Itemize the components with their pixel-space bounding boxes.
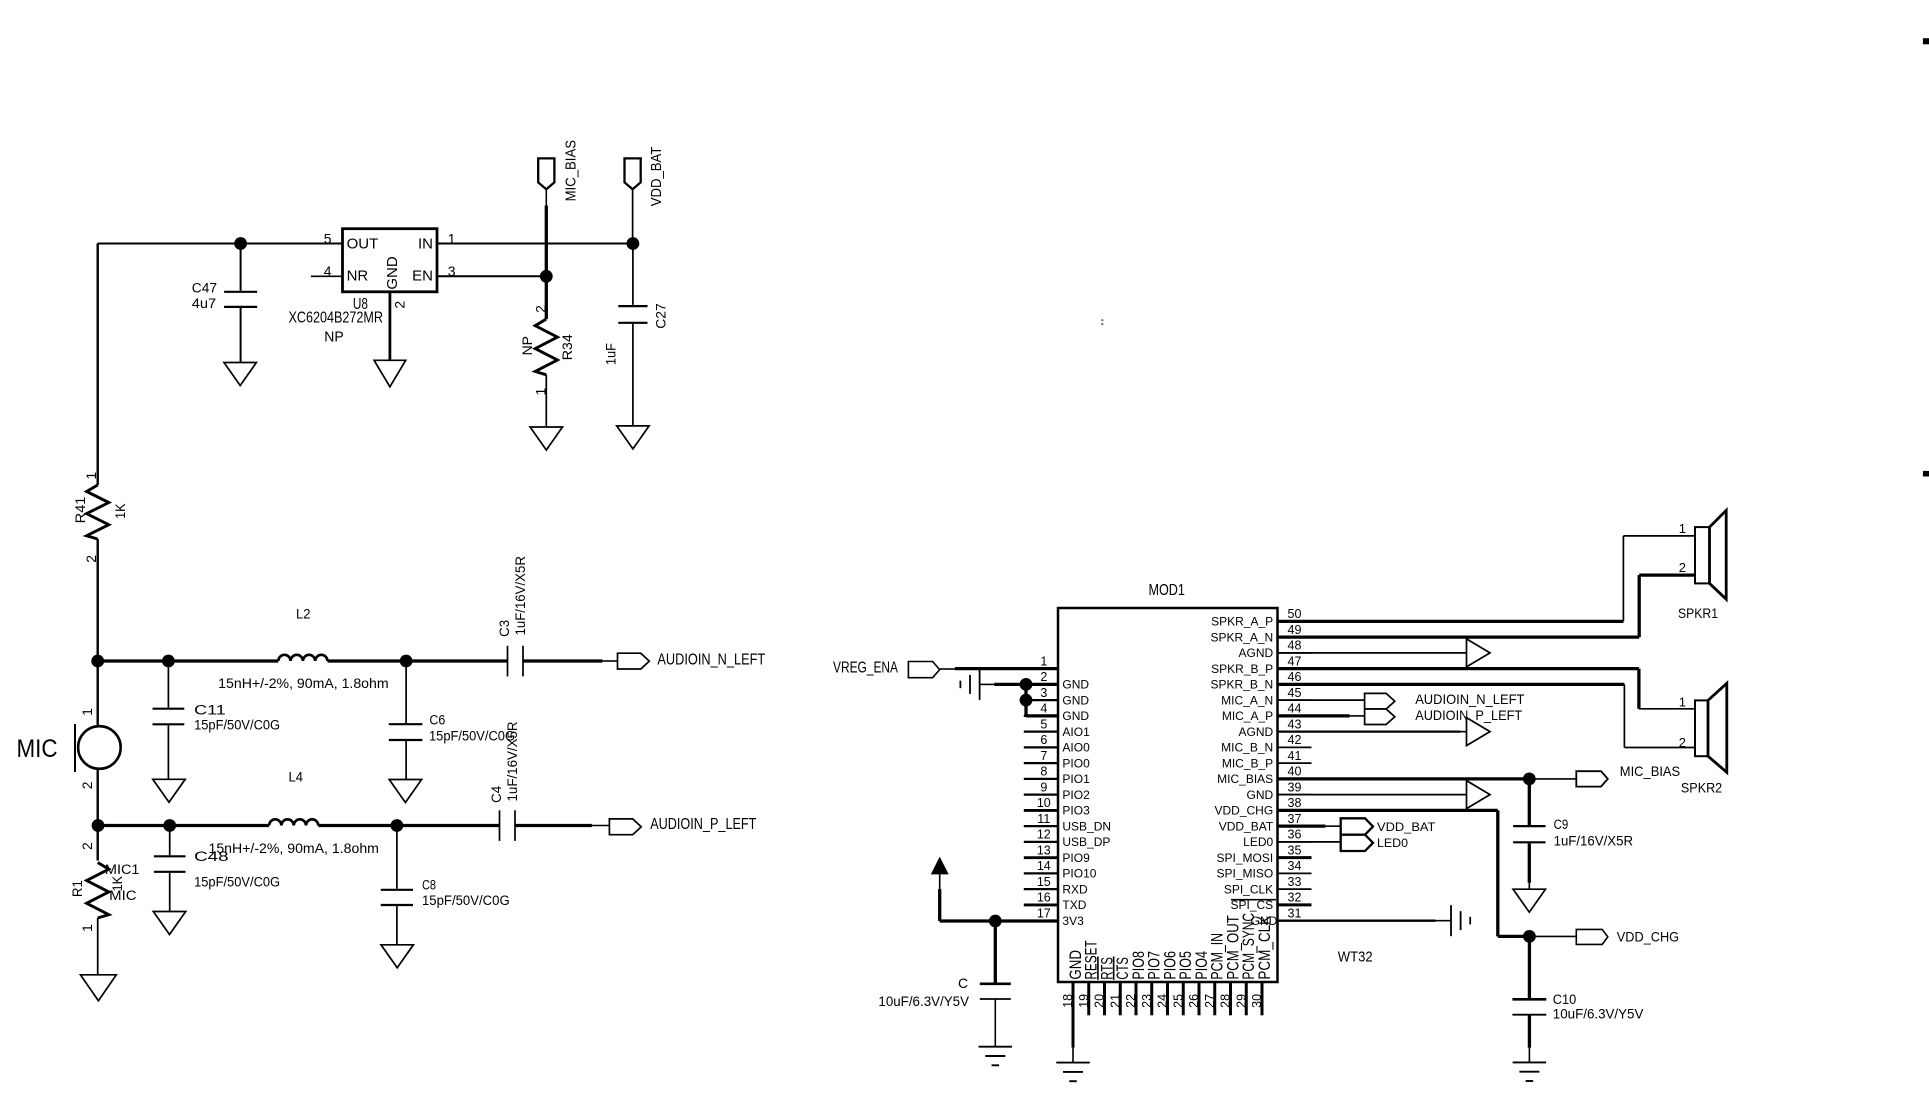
svg-text:XC6204B272MR: XC6204B272MR	[289, 309, 384, 326]
svg-text:SPI_MISO: SPI_MISO	[1217, 867, 1274, 881]
svg-text:21: 21	[1108, 994, 1122, 1008]
microphone MIC1 symbol	[96, 661, 98, 726]
svg-text:16: 16	[1037, 891, 1051, 905]
svg-text:MIC: MIC	[17, 735, 58, 763]
pin 36 stub (MOD1 right)	[1278, 841, 1312, 843]
capacitor C10	[1528, 936, 1531, 998]
ground symbol (rotated) at pin 2	[980, 683, 995, 685]
capacitor C6	[405, 661, 407, 723]
wire: VREG_ENA lead	[940, 668, 955, 670]
pin 35 stub (MOD1 right)	[1278, 856, 1312, 859]
pin 25 stub (MOD1 bottom)	[1182, 982, 1185, 1015]
svg-text:6: 6	[1040, 733, 1047, 747]
svg-text:1: 1	[1040, 654, 1047, 668]
pin 22 stub (MOD1 bottom)	[1135, 982, 1138, 1015]
svg-text:1uF: 1uF	[604, 343, 619, 365]
pin 49 stub (MOD1 right)	[1278, 636, 1312, 638]
resistor R34	[545, 276, 548, 319]
pin 46 stub (MOD1 right)	[1278, 683, 1312, 685]
wire: SPKR_A_P net (pin 50)	[1278, 620, 1624, 623]
svg-text:2: 2	[532, 305, 548, 313]
svg-text:31: 31	[1288, 906, 1302, 920]
wire: LED0 net (pin 36)	[1278, 841, 1341, 843]
svg-text:28: 28	[1219, 994, 1233, 1008]
svg-text:LED0: LED0	[1377, 838, 1408, 850]
pin 5 stub (MOD1 left)	[1024, 731, 1058, 733]
svg-text:PIO2: PIO2	[1062, 788, 1090, 802]
wire: MIC_BIAS net (pin 40)	[1278, 777, 1530, 780]
svg-text:14: 14	[1037, 859, 1051, 873]
svg-text:PCM_CLK: PCM_CLK	[1255, 915, 1274, 979]
node: C junction on 3V3	[989, 915, 1002, 928]
svg-text:42: 42	[1288, 733, 1302, 747]
svg-text:PIO1: PIO1	[1062, 772, 1090, 786]
pin 39 stub (MOD1 right)	[1278, 794, 1312, 796]
svg-text:PIO0: PIO0	[1062, 756, 1090, 770]
pin 11 stub (MOD1 left)	[1024, 825, 1058, 827]
pin 12 stub (MOD1 left)	[1024, 841, 1058, 843]
svg-text:GND: GND	[1062, 693, 1089, 707]
svg-text:R34: R34	[559, 334, 575, 360]
capacitor C8	[396, 826, 398, 889]
svg-text:SPKR_A_N: SPKR_A_N	[1210, 630, 1273, 644]
svg-text:2: 2	[391, 301, 407, 309]
svg-text:EN: EN	[412, 268, 433, 285]
svg-text:40: 40	[1288, 765, 1302, 779]
svg-text:LED0: LED0	[1243, 835, 1273, 849]
svg-text:R41: R41	[72, 496, 88, 523]
svg-text:2: 2	[79, 781, 95, 789]
svg-text:PIO3: PIO3	[1062, 804, 1090, 818]
pin 37 stub (MOD1 right)	[1278, 825, 1312, 827]
svg-text:AUDIOIN_N_LEFT: AUDIOIN_N_LEFT	[1415, 691, 1525, 707]
svg-text:MIC_B_P: MIC_B_P	[1222, 756, 1273, 770]
svg-text:29: 29	[1234, 994, 1248, 1008]
pin 38 stub (MOD1 right)	[1278, 809, 1312, 811]
wire: IN net (U8.IN to VDD_BAT node)	[437, 243, 633, 245]
svg-text:13: 13	[1037, 843, 1051, 857]
svg-text:1: 1	[79, 708, 95, 716]
wire: MIC_A_N net (pin 45)	[1278, 699, 1365, 701]
node: VDD_BAT/IN junction	[627, 237, 640, 250]
net flag AUDIOIN_N_LEFT (right)	[1365, 693, 1395, 709]
ground below C27	[617, 426, 649, 449]
svg-text:30: 30	[1250, 994, 1264, 1008]
wire: AGND arrow (pin 48)	[1278, 652, 1467, 654]
svg-text:41: 41	[1288, 749, 1302, 763]
pin 32 stub (MOD1 right)	[1278, 903, 1312, 906]
svg-text:32: 32	[1288, 891, 1302, 905]
svg-text:C47: C47	[192, 280, 217, 295]
svg-text:MIC_A_P: MIC_A_P	[1222, 709, 1273, 723]
stray mark top right	[1923, 38, 1929, 44]
svg-text:C8: C8	[422, 877, 436, 892]
capacitor C4 (series)	[499, 810, 501, 841]
pin 20 stub (MOD1 bottom)	[1103, 982, 1106, 1015]
ground below U8	[374, 360, 406, 387]
svg-text:46: 46	[1288, 670, 1302, 684]
IEC ground below C10	[1513, 1061, 1547, 1063]
pin 2 stub (MOD1 left)	[1024, 683, 1058, 685]
wire: L2 to C3	[328, 659, 508, 662]
svg-text:R1: R1	[69, 880, 85, 897]
node: MIC_BIAS junction	[1523, 773, 1536, 786]
svg-text:C10: C10	[1553, 992, 1577, 1007]
wire: GND net (pin 31)	[1278, 919, 1436, 921]
pin 24 stub (MOD1 bottom)	[1166, 982, 1169, 1015]
svg-text:AUDIOIN_N_LEFT: AUDIOIN_N_LEFT	[657, 651, 765, 668]
wire: L4 to C4	[318, 824, 499, 827]
resistor R41	[87, 485, 109, 539]
svg-text:15pF/50V/C0G: 15pF/50V/C0G	[422, 893, 510, 908]
wire: R41 to upper audio node	[96, 539, 98, 661]
net flag LED0	[1341, 835, 1373, 851]
svg-text:AGND: AGND	[1239, 725, 1274, 739]
pin 44 stub (MOD1 right)	[1278, 715, 1312, 717]
pin 8 stub (MOD1 left)	[1024, 778, 1058, 780]
svg-text:26: 26	[1187, 994, 1201, 1008]
wire: SPKR_B_N net (pin 46)	[1278, 683, 1625, 686]
net flag MIC_BIAS (right)	[1576, 771, 1608, 786]
ground below R1	[81, 975, 117, 1001]
net flag AUDIOIN_P_LEFT (right)	[1365, 709, 1395, 725]
ground below C48	[153, 912, 185, 935]
svg-text:L4: L4	[289, 769, 304, 785]
wire: GND net pin4	[1026, 714, 1058, 717]
pin 42 stub (MOD1 right)	[1278, 746, 1312, 748]
svg-text:15pF/50V/C0G: 15pF/50V/C0G	[194, 874, 280, 889]
op-amp U8 regulator XC6204B272MR box	[343, 229, 438, 292]
pin 23 stub (MOD1 bottom)	[1150, 982, 1153, 1015]
svg-text:SPKR2: SPKR2	[1681, 780, 1722, 796]
wire: EN net (U8.EN to MIC_BIAS node)	[437, 275, 546, 277]
svg-text:GND: GND	[384, 256, 401, 290]
svg-text:MIC_BIAS: MIC_BIAS	[1620, 763, 1680, 779]
svg-text:SPKR_B_N: SPKR_B_N	[1210, 678, 1273, 692]
overline for CTS (pin 21)	[1113, 957, 1115, 980]
svg-text:34: 34	[1288, 859, 1302, 873]
svg-text:MIC_A_N: MIC_A_N	[1221, 693, 1273, 707]
node: VDD_CHG junction	[1523, 930, 1536, 943]
node: C8 junction	[391, 819, 404, 832]
capacitor C (10uF/6.3V/Y5V)	[994, 921, 997, 983]
svg-text:1: 1	[79, 924, 95, 932]
svg-text:3V3: 3V3	[1062, 914, 1084, 928]
pin 9 stub (MOD1 left)	[1024, 794, 1058, 796]
svg-text:45: 45	[1288, 686, 1302, 700]
wire: MIC_A_P net (pin 44)	[1278, 714, 1350, 717]
svg-text:37: 37	[1288, 812, 1302, 826]
svg-text:1: 1	[1679, 521, 1686, 536]
node: C11 junction	[162, 655, 175, 668]
capacitor C47	[240, 244, 242, 291]
svg-text:17: 17	[1037, 906, 1051, 920]
svg-text:1: 1	[532, 388, 548, 396]
wire: SPKR_A_N net (pin 49)	[1278, 636, 1640, 639]
pin 50 stub (MOD1 right)	[1278, 620, 1312, 622]
wire: lower audio line (AUDIOIN_P_LEFT net)	[98, 824, 269, 827]
svg-text:VDD_CHG: VDD_CHG	[1215, 804, 1274, 818]
svg-text:TXD: TXD	[1062, 898, 1086, 912]
pin 40 stub (MOD1 right)	[1278, 778, 1312, 780]
inductor L2	[278, 655, 327, 661]
wire: C4 lead to flag	[592, 825, 610, 827]
svg-text:50: 50	[1288, 607, 1302, 621]
pin 15 stub (MOD1 left)	[1024, 888, 1058, 890]
wire: left rail vertical down to R41	[96, 244, 98, 486]
supply flag MIC_BIAS (top)	[538, 158, 554, 189]
pin 48 stub (MOD1 right)	[1278, 652, 1312, 654]
node: C6 junction	[400, 655, 413, 668]
wire: 3V3 horizontal to pin 17	[940, 919, 1058, 922]
svg-text:GND: GND	[1062, 678, 1089, 692]
pin 30 stub (MOD1 bottom)	[1261, 982, 1264, 1015]
pin 14 stub (MOD1 left)	[1024, 872, 1058, 874]
svg-text:C: C	[958, 975, 968, 991]
svg-text:23: 23	[1140, 994, 1154, 1008]
wire: SPKR_B_P net (pin 47)	[1278, 667, 1639, 670]
svg-text:33: 33	[1288, 875, 1302, 889]
node: pin2 junction	[1020, 678, 1033, 691]
speaker SPKR2	[1695, 700, 1708, 756]
pin 47 stub (MOD1 right)	[1278, 668, 1312, 670]
svg-text:48: 48	[1288, 639, 1302, 653]
pin 21 stub (MOD1 bottom)	[1119, 982, 1122, 1015]
svg-text:15nH+/-2%, 90mA, 1.8ohm: 15nH+/-2%, 90mA, 1.8ohm	[209, 840, 379, 856]
wire: upper audio line (AUDIOIN_N_LEFT net)	[98, 659, 279, 662]
ground symbol (rotated) at pin 31	[1450, 905, 1452, 936]
wire: MIC_BIAS vertical net	[545, 206, 548, 277]
svg-text:19: 19	[1077, 994, 1091, 1008]
svg-text:11: 11	[1037, 812, 1050, 826]
svg-text:C4: C4	[489, 785, 504, 802]
wire: 3V3 vertical	[938, 889, 941, 921]
wire: GND vertical link pins 2-4	[1024, 684, 1027, 716]
wire: VDD_CHG net (pin 38)	[1278, 809, 1498, 812]
svg-text:10: 10	[1037, 796, 1051, 810]
svg-text:5: 5	[324, 231, 332, 247]
svg-text:38: 38	[1288, 796, 1302, 810]
pin 18 stub (MOD1 bottom)	[1072, 982, 1075, 1015]
capacitor C3 (series)	[507, 646, 509, 677]
svg-text:35: 35	[1288, 843, 1302, 857]
svg-text:L2: L2	[296, 605, 311, 621]
svg-text:43: 43	[1288, 717, 1302, 731]
junction node at C47 top	[234, 237, 247, 250]
pin 41 stub (MOD1 right)	[1278, 762, 1312, 764]
net flag AUDIOIN_N_LEFT	[618, 653, 650, 669]
svg-text:WT32: WT32	[1338, 948, 1373, 965]
wire: MIC_BIAS flag lead	[545, 189, 547, 205]
svg-text:GND: GND	[1062, 709, 1089, 723]
node: MIC_BIAS/EN junction	[540, 270, 553, 283]
node: upper line left junction	[91, 655, 104, 668]
pin 34 stub (MOD1 right)	[1278, 872, 1312, 874]
pin 6 stub (MOD1 left)	[1024, 746, 1058, 748]
svg-text:VDD_BAT: VDD_BAT	[1219, 819, 1274, 833]
wire: GND arrow (pin 39)	[1278, 794, 1467, 796]
svg-text:AUDIOIN_P_LEFT: AUDIOIN_P_LEFT	[650, 816, 756, 833]
pin 17 stub (MOD1 left)	[1024, 920, 1058, 922]
svg-text:49: 49	[1288, 623, 1302, 637]
svg-text:NP: NP	[324, 328, 343, 345]
wire: C3 lead to flag	[602, 660, 617, 662]
node: lower line left junction	[92, 819, 105, 832]
net flag VREG_ENA	[908, 662, 939, 678]
node: pin3 junction	[1020, 694, 1033, 707]
svg-text:1: 1	[1679, 695, 1686, 710]
svg-text:4: 4	[1040, 702, 1047, 716]
svg-text:C27: C27	[654, 303, 669, 328]
stray mark right edge	[1923, 471, 1929, 477]
pin 16 stub (MOD1 left)	[1024, 903, 1058, 906]
ground below C11	[153, 779, 185, 802]
svg-text:15nH+/-2%, 90mA, 1.8ohm: 15nH+/-2%, 90mA, 1.8ohm	[218, 675, 388, 691]
svg-text:MIC_BIAS: MIC_BIAS	[562, 140, 579, 201]
supply flag VDD_BAT (top)	[625, 158, 641, 189]
svg-text:15pF/50V/C0G: 15pF/50V/C0G	[429, 728, 515, 743]
capacitor C27	[632, 244, 634, 305]
svg-text:C3: C3	[497, 620, 512, 637]
wire: pin 18 GND down	[1072, 982, 1075, 1048]
svg-text:RXD: RXD	[1062, 882, 1088, 896]
pin 7 stub (MOD1 left)	[1024, 762, 1058, 764]
svg-text:OUT: OUT	[347, 235, 379, 252]
svg-text:10uF/6.3V/Y5V: 10uF/6.3V/Y5V	[878, 994, 969, 1009]
svg-text:MOD1: MOD1	[1149, 582, 1185, 599]
svg-text:SPI_MOSI: SPI_MOSI	[1217, 851, 1274, 865]
svg-text:5: 5	[1040, 717, 1047, 731]
net flag AUDIOIN_P_LEFT	[609, 819, 641, 835]
wire: U8 NR stub	[311, 275, 343, 277]
svg-text:2: 2	[1040, 670, 1047, 684]
svg-text:20: 20	[1093, 994, 1107, 1008]
resistor R1	[96, 826, 98, 861]
ground below C47	[224, 363, 256, 386]
svg-text:VDD_BAT: VDD_BAT	[648, 147, 665, 207]
svg-text:36: 36	[1288, 828, 1302, 842]
svg-text:25: 25	[1171, 994, 1185, 1008]
svg-text:12: 12	[1037, 828, 1051, 842]
wire: AGND arrow (pin 43)	[1278, 731, 1461, 733]
svg-text:2: 2	[1679, 735, 1686, 750]
svg-text:MIC_B_N: MIC_B_N	[1221, 741, 1273, 755]
svg-text:NR: NR	[347, 268, 369, 285]
svg-text:22: 22	[1124, 994, 1138, 1008]
svg-text:2: 2	[1679, 560, 1686, 575]
pin 19 stub (MOD1 bottom)	[1087, 982, 1090, 1015]
svg-text:8: 8	[1040, 765, 1047, 779]
net flag VDD_CHG	[1576, 929, 1608, 944]
wire: VDD_BAT vertical	[632, 189, 634, 243]
pin 3 stub (MOD1 left)	[1024, 699, 1058, 701]
svg-text:C11: C11	[194, 702, 226, 717]
svg-text:15: 15	[1037, 875, 1051, 889]
wire: OUT net horizontal (U8.OUT to left rail)	[98, 243, 343, 245]
IEC ground below pin 18	[1056, 1062, 1090, 1064]
ground below C9	[1513, 889, 1545, 912]
svg-text:9: 9	[1040, 780, 1047, 794]
pin 4 stub (MOD1 left)	[1024, 715, 1058, 717]
svg-text:SPKR_A_P: SPKR_A_P	[1211, 615, 1273, 629]
svg-text:3: 3	[1040, 686, 1047, 700]
pin 13 stub (MOD1 left)	[1024, 856, 1058, 859]
wire: GND net pin2	[994, 683, 1058, 686]
pin 45 stub (MOD1 right)	[1278, 699, 1312, 701]
pin 26 stub (MOD1 bottom)	[1198, 982, 1201, 1015]
ground below C8	[381, 945, 413, 968]
svg-text:PIO9: PIO9	[1062, 851, 1090, 865]
capacitor C9	[1528, 779, 1531, 825]
wire: U8 GND pin down	[388, 292, 391, 361]
pin 28 stub (MOD1 bottom)	[1229, 982, 1232, 1015]
svg-text:MIC: MIC	[109, 888, 137, 903]
svg-text:VREG_ENA: VREG_ENA	[833, 659, 898, 676]
inductor L4	[269, 819, 318, 825]
svg-text:10uF/6.3V/Y5V: 10uF/6.3V/Y5V	[1553, 1007, 1644, 1022]
pin 10 stub (MOD1 left)	[1024, 809, 1058, 812]
svg-text:AIO0: AIO0	[1062, 741, 1090, 755]
svg-text:PIO10: PIO10	[1062, 867, 1096, 881]
svg-text:SPKR1: SPKR1	[1678, 605, 1718, 621]
svg-text:44: 44	[1288, 702, 1302, 716]
svg-text:VDD_BAT: VDD_BAT	[1377, 822, 1435, 834]
wire: VDD_BAT net (pin 37)	[1278, 825, 1326, 828]
net flag VDD_BAT (right)	[1341, 818, 1373, 834]
svg-text:MIC_BIAS: MIC_BIAS	[1217, 772, 1273, 786]
svg-text:C9: C9	[1554, 817, 1569, 832]
svg-text:C6: C6	[429, 713, 445, 728]
svg-text:VDD_CHG: VDD_CHG	[1617, 928, 1679, 944]
svg-text:AGND: AGND	[1239, 646, 1274, 660]
svg-text:NP: NP	[519, 336, 535, 355]
svg-text:39: 39	[1288, 780, 1302, 794]
svg-text:1: 1	[83, 472, 99, 480]
pin 31 stub (MOD1 right)	[1278, 920, 1312, 922]
svg-text:27: 27	[1203, 994, 1217, 1008]
svg-text:1uF/16V/X5R: 1uF/16V/X5R	[1554, 833, 1634, 848]
svg-text:24: 24	[1156, 994, 1170, 1008]
svg-text:IN: IN	[418, 235, 433, 252]
ground below C6	[389, 780, 421, 803]
svg-text:USB_DN: USB_DN	[1062, 819, 1111, 833]
svg-text:47: 47	[1288, 654, 1302, 668]
power symbol 3V3 arrow	[932, 858, 948, 874]
svg-text:USB_DP: USB_DP	[1062, 835, 1110, 849]
overline for RTS (pin 20)	[1097, 957, 1099, 980]
svg-text:7: 7	[1040, 749, 1047, 763]
pin 27 stub (MOD1 bottom)	[1213, 982, 1216, 1015]
capacitor C48	[169, 826, 171, 856]
svg-text:4u7: 4u7	[192, 296, 216, 311]
svg-text:GND: GND	[1247, 788, 1274, 802]
ground below R34	[530, 427, 562, 450]
svg-text:AIO1: AIO1	[1062, 725, 1090, 739]
svg-text:1uF/16V/X5R: 1uF/16V/X5R	[505, 721, 520, 801]
node: C48 junction	[163, 819, 176, 832]
svg-text:2: 2	[79, 842, 95, 850]
svg-text:C48: C48	[194, 849, 229, 864]
svg-text:1uF/16V/X5R: 1uF/16V/X5R	[513, 556, 528, 636]
svg-text:1K: 1K	[112, 503, 128, 519]
pin 29 stub (MOD1 bottom)	[1245, 982, 1248, 1015]
IEC ground below C	[979, 1046, 1013, 1048]
wire: VREG_ENA net to pin 1	[955, 667, 1058, 670]
IC MOD1 (WT32) box	[1058, 608, 1278, 982]
pin 1 stub (MOD1 left)	[1024, 668, 1058, 670]
svg-text:MIC1: MIC1	[105, 862, 140, 877]
overline for SPI_CS (pin 32)	[1231, 899, 1276, 901]
